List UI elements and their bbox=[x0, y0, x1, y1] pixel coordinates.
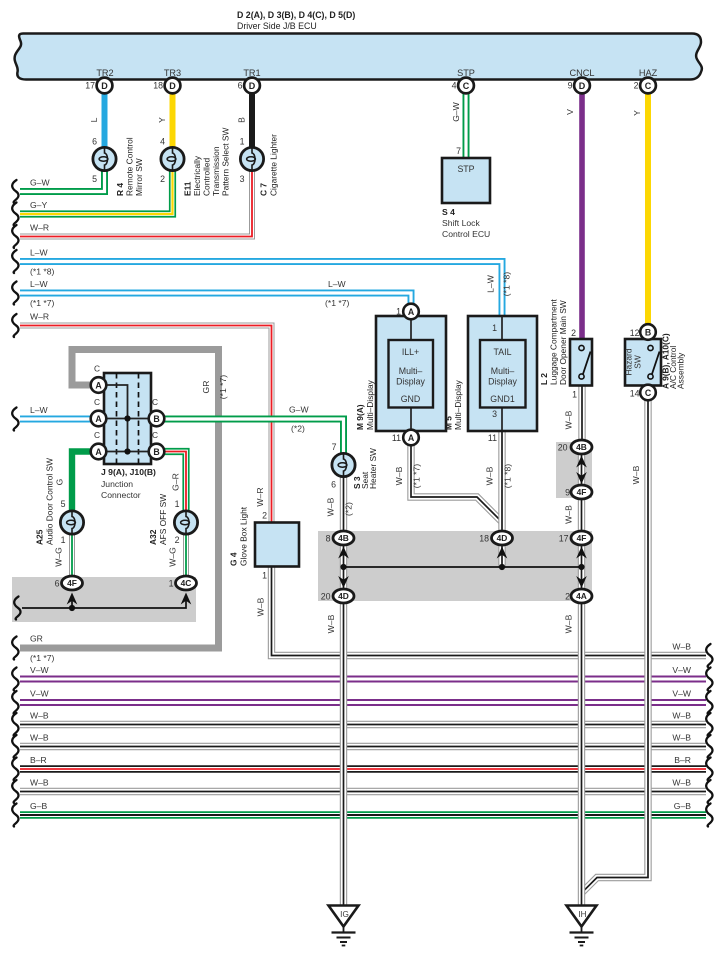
E11 ECT Pattern Select SW bulb bbox=[161, 147, 184, 170]
wire end mark right y=655.5 bbox=[706, 644, 712, 667]
svg-text:V–W: V–W bbox=[30, 689, 50, 699]
connector 4D pin 18 bbox=[492, 531, 513, 545]
wire end mark left y=791.5 bbox=[12, 780, 18, 803]
svg-text:GND: GND bbox=[401, 394, 421, 404]
svg-text:1: 1 bbox=[572, 390, 577, 400]
svg-text:4B: 4B bbox=[576, 442, 587, 452]
svg-text:Heater SW: Heater SW bbox=[368, 448, 378, 489]
svg-text:GND1: GND1 bbox=[490, 394, 515, 404]
svg-text:W–B: W–B bbox=[485, 466, 495, 485]
svg-text:Remote Control: Remote Control bbox=[125, 137, 135, 196]
svg-text:1: 1 bbox=[175, 499, 180, 509]
wire inside band at 4D(18) bbox=[498, 544, 505, 568]
svg-text:G–B: G–B bbox=[30, 801, 47, 811]
J/B pin HAZ 2(C) bbox=[640, 78, 656, 94]
wire W–B from 4A(2) to IH ground bbox=[578, 603, 585, 907]
wire W–B from Hazard SW pin 14 to IH ground bbox=[583, 401, 649, 893]
svg-text:W–B: W–B bbox=[672, 642, 691, 652]
M9 pin 1 connector A bbox=[403, 304, 419, 320]
arrow up to 4B(8) bbox=[338, 547, 349, 559]
svg-text:B: B bbox=[153, 447, 159, 457]
wire W–G from A32 pin 2 to connector 4C bbox=[183, 533, 189, 577]
S4 Shift Lock Control ECU box bbox=[442, 158, 490, 203]
wire Y from TR3 to E11 bbox=[170, 94, 176, 149]
svg-text:W–B: W–B bbox=[256, 597, 266, 616]
junction dot bbox=[499, 564, 505, 570]
svg-text:Controlled: Controlled bbox=[202, 157, 212, 196]
svg-text:V–W: V–W bbox=[672, 665, 692, 675]
wire L–W (*1 *7) from left edge to M9 pin 1 bbox=[20, 293, 411, 304]
svg-text:Electrically: Electrically bbox=[192, 155, 202, 196]
svg-text:W–B: W–B bbox=[394, 466, 404, 485]
M9 inner unit box bbox=[389, 340, 434, 408]
wire W–G from A25 pin 1 to connector 4F bbox=[69, 533, 75, 577]
junction pin A mid bbox=[91, 411, 107, 427]
svg-text:D: D bbox=[249, 81, 256, 91]
svg-text:Audio Door Control SW: Audio Door Control SW bbox=[45, 458, 55, 545]
junction dot bbox=[340, 564, 346, 570]
svg-text:AFS OFF SW: AFS OFF SW bbox=[158, 494, 168, 545]
svg-text:W–G: W–G bbox=[54, 547, 64, 567]
svg-text:W–B: W–B bbox=[326, 497, 336, 516]
svg-text:A32: A32 bbox=[148, 529, 158, 545]
svg-text:(*1 *7): (*1 *7) bbox=[30, 298, 54, 308]
svg-text:9: 9 bbox=[568, 81, 573, 91]
junction dot bbox=[124, 415, 130, 421]
connector 4F pin 6 bbox=[62, 576, 83, 590]
svg-text:2: 2 bbox=[160, 174, 165, 184]
svg-text:4F: 4F bbox=[67, 578, 77, 588]
svg-text:Assembly: Assembly bbox=[676, 352, 686, 389]
wire W–B from G4 pin 1 to right edge bbox=[272, 567, 707, 656]
wire end mark left y=746.5 bbox=[12, 735, 18, 758]
svg-text:Multi–: Multi– bbox=[399, 366, 423, 376]
svg-text:M 5: M 5 bbox=[444, 416, 454, 430]
wire B–R bus bbox=[20, 765, 706, 772]
arrow down to 4D(20) bbox=[338, 576, 349, 588]
wire V from CNCL to L2 bbox=[579, 94, 585, 340]
svg-text:Display: Display bbox=[396, 377, 425, 387]
svg-text:9: 9 bbox=[565, 488, 570, 498]
connector 4A pin 2 bbox=[571, 589, 592, 603]
wire W–B from L2 pin 1 to connector 4B bbox=[578, 386, 585, 442]
svg-text:2: 2 bbox=[634, 81, 639, 91]
svg-text:4C: 4C bbox=[181, 578, 192, 588]
arrow up to 4D(18) bbox=[497, 547, 508, 559]
svg-text:4F: 4F bbox=[577, 487, 587, 497]
svg-text:A: A bbox=[408, 433, 415, 443]
svg-text:4B: 4B bbox=[338, 533, 349, 543]
svg-text:C 7: C 7 bbox=[259, 183, 269, 196]
svg-text:6: 6 bbox=[55, 579, 60, 589]
svg-text:W–R: W–R bbox=[30, 223, 49, 233]
svg-text:C: C bbox=[94, 397, 100, 407]
svg-text:E11: E11 bbox=[183, 181, 193, 196]
J/B pin STP 4(C) bbox=[458, 78, 474, 94]
svg-text:G–B: G–B bbox=[674, 801, 691, 811]
wire W–B (*2) from S3 pin 6 to connector 4B bbox=[340, 476, 347, 531]
arrow down to 4A(2) bbox=[576, 576, 587, 588]
G4 Glove Box Light box bbox=[255, 523, 299, 567]
svg-text:11: 11 bbox=[488, 433, 497, 443]
svg-text:C: C bbox=[152, 397, 158, 407]
connector 4C pin 1 bbox=[176, 576, 197, 590]
wire V–W bus 1 bbox=[20, 676, 706, 683]
wire end mark left y=648 bbox=[12, 637, 18, 660]
wire G–W (*2) from junction connector pin B to S3 pin 7 bbox=[164, 419, 344, 454]
svg-text:Transmission: Transmission bbox=[211, 146, 221, 196]
M9(A) Multi-Display outer box bbox=[376, 316, 446, 431]
svg-text:4A: 4A bbox=[576, 591, 587, 601]
ground IH bbox=[567, 906, 597, 946]
S3 Seat Heater SW bulb bbox=[332, 453, 355, 476]
svg-text:D: D bbox=[579, 81, 586, 91]
wire V–W bus 2 bbox=[20, 699, 706, 706]
svg-text:W–B: W–B bbox=[672, 733, 691, 743]
svg-text:G: G bbox=[55, 478, 65, 485]
svg-text:(*1 *7): (*1 *7) bbox=[412, 464, 422, 488]
svg-text:L–W: L–W bbox=[30, 405, 49, 415]
wire end mark right y=791.5 bbox=[706, 780, 712, 803]
svg-text:6: 6 bbox=[92, 137, 97, 147]
A25 Audio Door Control SW bulb bbox=[60, 511, 83, 534]
L2 switch symbol bbox=[579, 345, 584, 350]
svg-text:1: 1 bbox=[396, 307, 401, 317]
svg-text:1: 1 bbox=[169, 579, 174, 589]
svg-text:5: 5 bbox=[92, 174, 97, 184]
svg-text:C: C bbox=[94, 430, 100, 440]
M5 inner unit box bbox=[480, 340, 526, 408]
junction dot bbox=[124, 448, 130, 454]
svg-text:11: 11 bbox=[392, 433, 401, 443]
svg-text:Y: Y bbox=[632, 110, 642, 116]
svg-text:20: 20 bbox=[558, 443, 568, 453]
svg-text:3: 3 bbox=[240, 174, 245, 184]
wire W–B (*1 *7) from M9 pin 11 bbox=[411, 445, 502, 522]
arrow down to 4F(9) bbox=[576, 472, 587, 484]
svg-text:Multi–Display: Multi–Display bbox=[453, 379, 463, 430]
svg-text:B: B bbox=[153, 414, 159, 424]
wire GR from junction connector J9 pin A to left edge bbox=[20, 350, 219, 649]
ground bus line (center band) bbox=[344, 566, 582, 568]
svg-text:Mirror SW: Mirror SW bbox=[134, 158, 144, 196]
junction pin B bottom bbox=[149, 444, 165, 460]
wire end mark left y=293 bbox=[12, 282, 18, 305]
wire end mark left y=236.5 bbox=[12, 225, 18, 248]
wire G–W from R4 pin 5 to left edge bbox=[20, 170, 105, 192]
wire end mark ground bus bbox=[14, 597, 20, 620]
svg-text:A: A bbox=[408, 307, 415, 317]
wire L from TR2 to R4 bbox=[102, 94, 108, 149]
svg-text:B–R: B–R bbox=[30, 755, 47, 765]
svg-text:(*1 *7): (*1 *7) bbox=[30, 653, 54, 663]
svg-text:V–W: V–W bbox=[672, 689, 692, 699]
svg-text:G–R: G–R bbox=[171, 473, 181, 491]
svg-text:G–W: G–W bbox=[30, 178, 50, 188]
svg-text:W–R: W–R bbox=[30, 312, 49, 322]
arrow up to 4F(17) bbox=[576, 547, 587, 559]
ground bus line (A25/A32 shield) bbox=[22, 598, 186, 608]
wire W–B bus 3 bbox=[20, 788, 706, 795]
svg-text:Cigarette Lighter: Cigarette Lighter bbox=[269, 134, 279, 196]
svg-text:G–W: G–W bbox=[289, 405, 309, 415]
svg-text:Multi–: Multi– bbox=[491, 366, 515, 376]
wire W–B from 4F(9) to 4F(17) bbox=[578, 498, 585, 532]
gray shading band left (ground bus A25/A32) bbox=[12, 577, 196, 622]
svg-text:L–W: L–W bbox=[486, 274, 496, 293]
svg-text:2: 2 bbox=[565, 592, 570, 602]
svg-text:18: 18 bbox=[153, 81, 163, 91]
svg-text:3: 3 bbox=[492, 409, 497, 419]
svg-text:2: 2 bbox=[175, 535, 180, 545]
svg-text:6: 6 bbox=[238, 81, 243, 91]
svg-text:20: 20 bbox=[321, 592, 331, 602]
wire G–R from junction connector pin B to A32 pin 1 bbox=[164, 452, 186, 512]
svg-text:12: 12 bbox=[630, 328, 640, 338]
svg-text:V–W: V–W bbox=[30, 665, 50, 675]
junction dot on ground bus bbox=[69, 605, 75, 611]
connector 4F pin 9 bbox=[571, 485, 592, 499]
wire L–W (*1 *8) from left edge to M5 pin 1 bbox=[20, 262, 502, 317]
connector 4B pin 20 bbox=[571, 440, 592, 454]
svg-text:Luggage Compartment: Luggage Compartment bbox=[549, 299, 559, 385]
ground IG bbox=[329, 906, 359, 946]
svg-text:A: A bbox=[95, 447, 102, 457]
svg-text:L: L bbox=[89, 117, 99, 122]
wire W–B bus 2 bbox=[20, 743, 706, 750]
svg-text:(*1 *8): (*1 *8) bbox=[502, 272, 512, 296]
svg-text:B: B bbox=[645, 327, 651, 337]
svg-text:TAIL: TAIL bbox=[494, 347, 512, 357]
wire end mark right y=815 bbox=[706, 804, 712, 827]
svg-text:2: 2 bbox=[262, 511, 267, 521]
wire end mark left y=191.5 bbox=[12, 180, 18, 203]
svg-text:1: 1 bbox=[262, 571, 267, 581]
svg-text:Control ECU: Control ECU bbox=[442, 229, 490, 239]
wire end mark right y=724.5 bbox=[706, 713, 712, 736]
wire G–B bus bbox=[20, 811, 706, 818]
wire end mark left y=214 bbox=[12, 203, 18, 226]
svg-text:2: 2 bbox=[571, 328, 576, 338]
svg-text:6: 6 bbox=[331, 480, 336, 490]
svg-text:ILL+: ILL+ bbox=[402, 347, 419, 357]
connector 4D pin 20 bbox=[333, 589, 354, 603]
svg-text:J 9(A), J10(B): J 9(A), J10(B) bbox=[101, 467, 156, 477]
svg-text:R 4: R 4 bbox=[115, 183, 125, 196]
wire W–B bus 1 bbox=[20, 721, 706, 728]
svg-text:(*1 *8): (*1 *8) bbox=[30, 267, 54, 277]
svg-text:Multi–Display: Multi–Display bbox=[365, 379, 375, 430]
svg-text:W–B: W–B bbox=[326, 614, 336, 633]
svg-text:Pattern Select SW: Pattern Select SW bbox=[221, 127, 231, 196]
svg-text:GR: GR bbox=[201, 381, 211, 394]
wire G–W from STP to S4 Shift Lock Control ECU bbox=[463, 94, 470, 159]
M5 Multi-Display outer box bbox=[468, 316, 537, 431]
svg-text:IG: IG bbox=[340, 910, 349, 919]
svg-text:D: D bbox=[101, 81, 108, 91]
svg-text:W–G: W–G bbox=[168, 547, 178, 567]
wire end mark left y=261.5 bbox=[12, 250, 18, 273]
svg-text:5: 5 bbox=[61, 499, 66, 509]
wire W–B (*1 *8) from M5 pin 11 to connector 4D bbox=[498, 432, 505, 532]
svg-text:L–W: L–W bbox=[30, 248, 49, 258]
svg-text:W–R: W–R bbox=[255, 487, 265, 506]
wire end mark left y=815 bbox=[12, 804, 18, 827]
wire end mark left y=419 bbox=[12, 408, 18, 431]
connector 4F pin 17 bbox=[571, 531, 592, 545]
junction dot bbox=[578, 564, 584, 570]
junction connector J9(A), J10(B) bbox=[104, 373, 151, 464]
svg-text:7: 7 bbox=[332, 442, 337, 452]
svg-text:C: C bbox=[94, 364, 100, 374]
svg-text:C: C bbox=[645, 81, 652, 91]
svg-text:W–B: W–B bbox=[672, 778, 691, 788]
svg-text:L–W: L–W bbox=[328, 279, 347, 289]
svg-text:W–B: W–B bbox=[564, 505, 574, 524]
svg-text:W–B: W–B bbox=[564, 410, 574, 429]
svg-text:A: A bbox=[95, 414, 102, 424]
svg-text:W–B: W–B bbox=[30, 711, 49, 721]
wire inside band at 4F/4A bbox=[578, 544, 585, 590]
J/B pin TR3 18(D) bbox=[165, 78, 181, 94]
wire W–B from 4D(20) to IG ground bbox=[340, 603, 347, 907]
svg-text:(*2): (*2) bbox=[291, 424, 305, 434]
svg-text:W–B: W–B bbox=[631, 465, 641, 484]
R4 Remote Control Mirror SW bulb bbox=[93, 147, 116, 170]
svg-text:(*2): (*2) bbox=[344, 502, 354, 516]
svg-text:B–R: B–R bbox=[674, 755, 691, 765]
svg-text:Driver Side J/B ECU: Driver Side J/B ECU bbox=[237, 21, 317, 31]
J/B pin TR1 6(D) bbox=[244, 78, 260, 94]
svg-text:W–B: W–B bbox=[564, 614, 574, 633]
svg-text:17: 17 bbox=[559, 534, 569, 544]
svg-text:W–B: W–B bbox=[30, 733, 49, 743]
svg-text:B: B bbox=[237, 117, 247, 123]
svg-text:Display: Display bbox=[488, 377, 517, 387]
svg-text:IH: IH bbox=[578, 910, 586, 919]
svg-text:G–Y: G–Y bbox=[30, 200, 47, 210]
svg-text:G 4: G 4 bbox=[229, 552, 239, 566]
Hazard SW box (A/C control assembly) bbox=[625, 339, 661, 386]
wire end mark left y=702.5 bbox=[12, 691, 18, 714]
svg-text:(*1 *8): (*1 *8) bbox=[503, 464, 513, 488]
svg-text:STP: STP bbox=[457, 164, 474, 174]
arrow up to 4B(20) bbox=[576, 456, 587, 468]
Driver Side J/B ECU block bbox=[15, 34, 702, 80]
svg-text:W–B: W–B bbox=[30, 778, 49, 788]
svg-text:C: C bbox=[645, 388, 652, 398]
wire through connectors 4B-4F bbox=[578, 447, 585, 492]
svg-text:Door Opener Main SW: Door Opener Main SW bbox=[558, 300, 568, 385]
Hazard pin 14 connector C bbox=[640, 385, 656, 401]
svg-text:V: V bbox=[565, 109, 575, 115]
wire W–R from C7 pin 3 to left edge bbox=[20, 170, 252, 237]
M9 pin 11 connector A bbox=[403, 430, 419, 446]
wire G from junction connector pin A to A25 pin 5 bbox=[72, 452, 92, 512]
svg-text:1: 1 bbox=[61, 535, 66, 545]
svg-text:SW: SW bbox=[633, 355, 643, 369]
wire end mark left y=325.5 bbox=[12, 314, 18, 337]
wire L–W from left edge to junction connector pin A bbox=[20, 416, 92, 423]
svg-text:A25: A25 bbox=[35, 529, 45, 545]
svg-text:17: 17 bbox=[85, 81, 95, 91]
svg-text:S 4: S 4 bbox=[442, 207, 455, 217]
hazard switch symbol bbox=[648, 345, 653, 350]
svg-text:14: 14 bbox=[630, 389, 640, 399]
J/B pin CNCL 9(D) bbox=[574, 78, 590, 94]
svg-text:(*1 *7): (*1 *7) bbox=[325, 298, 349, 308]
wire B from TR1 to C7 bbox=[249, 94, 255, 149]
junction connector internal wiring bbox=[107, 385, 149, 452]
arrow up to 4F bbox=[67, 593, 78, 605]
svg-text:4: 4 bbox=[452, 81, 457, 91]
svg-text:L–W: L–W bbox=[30, 279, 49, 289]
gray shading band center (ground bus 4B/4D/4F/4A) bbox=[318, 531, 592, 601]
svg-text:Connector: Connector bbox=[101, 490, 141, 500]
A32 AFS OFF SW bulb bbox=[174, 511, 197, 534]
wire W–R from left edge to G4 Glove Box Light pin 2 bbox=[20, 326, 272, 524]
svg-text:W–B: W–B bbox=[672, 711, 691, 721]
svg-text:M 9(A): M 9(A) bbox=[355, 404, 365, 430]
J/B pin TR2 17(D) bbox=[97, 78, 113, 94]
junction pin A top bbox=[91, 377, 107, 393]
svg-text:C: C bbox=[463, 81, 470, 91]
wire inside band at 4B/4D bbox=[340, 544, 347, 590]
wire end mark left y=679 bbox=[12, 668, 18, 691]
svg-text:4D: 4D bbox=[338, 591, 349, 601]
svg-text:4F: 4F bbox=[577, 533, 587, 543]
wire Y from HAZ to Hazard SW bbox=[645, 94, 651, 326]
svg-text:Y: Y bbox=[157, 117, 167, 123]
svg-text:1: 1 bbox=[240, 137, 245, 147]
svg-text:Shift Lock: Shift Lock bbox=[442, 218, 480, 228]
arrow up to 4C bbox=[181, 593, 192, 605]
svg-text:(*1 *7): (*1 *7) bbox=[218, 375, 228, 399]
gray shading band right small (4B/4F) bbox=[556, 442, 592, 498]
svg-text:Glove Box Light: Glove Box Light bbox=[239, 506, 249, 566]
svg-text:4D: 4D bbox=[497, 533, 508, 543]
junction pin A bottom bbox=[91, 444, 107, 460]
L2 Luggage Compartment Door Opener Main SW box bbox=[570, 339, 592, 386]
svg-text:G–W: G–W bbox=[451, 101, 461, 121]
wire end mark right y=746.5 bbox=[706, 735, 712, 758]
junction pin B mid bbox=[149, 411, 165, 427]
wire end mark right y=702.5 bbox=[706, 691, 712, 714]
svg-text:8: 8 bbox=[326, 534, 331, 544]
svg-text:7: 7 bbox=[456, 146, 461, 156]
svg-text:D 2(A), D 3(B), D 4(C), D 5(D): D 2(A), D 3(B), D 4(C), D 5(D) bbox=[237, 10, 355, 20]
wire end mark right y=769 bbox=[706, 758, 712, 781]
svg-text:L 2: L 2 bbox=[539, 373, 549, 385]
svg-text:GR: GR bbox=[30, 634, 43, 644]
Hazard pin 12 connector B bbox=[640, 324, 656, 340]
wire end mark left y=769 bbox=[12, 758, 18, 781]
svg-text:1: 1 bbox=[492, 323, 497, 333]
wire G–Y from E11 pin 2 to left edge bbox=[20, 170, 173, 215]
svg-text:A: A bbox=[95, 380, 102, 390]
connector 4B pin 8 bbox=[333, 531, 354, 545]
svg-text:C: C bbox=[152, 430, 158, 440]
svg-text:D: D bbox=[169, 81, 176, 91]
wire end mark right y=679 bbox=[706, 668, 712, 691]
svg-text:Junction: Junction bbox=[101, 479, 133, 489]
svg-text:4: 4 bbox=[160, 137, 165, 147]
wire end mark left y=724.5 bbox=[12, 713, 18, 736]
svg-text:18: 18 bbox=[479, 534, 489, 544]
C7 Cigarette Lighter bulb bbox=[240, 147, 263, 170]
